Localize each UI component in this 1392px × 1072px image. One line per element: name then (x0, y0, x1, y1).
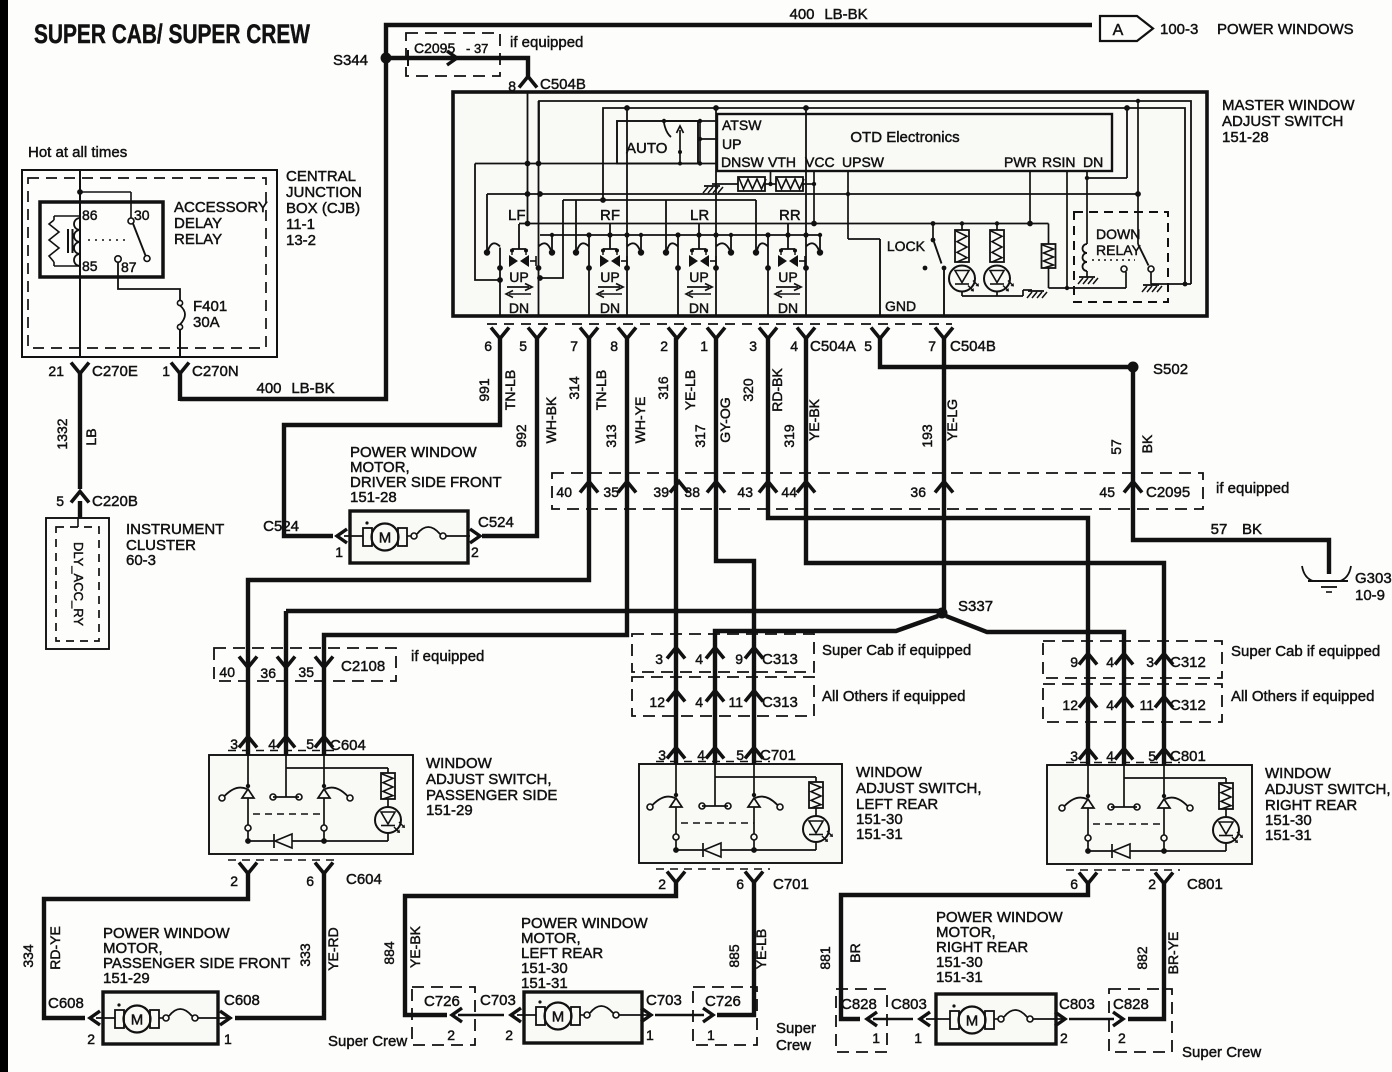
C828 left arrow (867, 1012, 877, 1026)
connector C604 top arrows (239, 737, 257, 748)
PWR pin wire to supply bus (1029, 171, 1031, 224)
C701 bottom arrows (667, 872, 685, 883)
passenger side left throw contact (219, 795, 225, 801)
svg-text:44: 44 (781, 484, 797, 500)
connector C828 left dashed box (836, 989, 887, 1052)
C801 top dashed edge (1066, 762, 1180, 764)
svg-text:5: 5 (1148, 748, 1156, 764)
RF DN return vertical (626, 108, 628, 316)
svg-text:12: 12 (649, 694, 665, 710)
svg-text:313: 313 (603, 424, 619, 448)
svg-text:RSIN: RSIN (1042, 154, 1075, 170)
left rear illumination resistor (809, 782, 823, 808)
connector C2095 dashed row (552, 473, 1203, 509)
svg-text:DN: DN (778, 300, 798, 316)
svg-text:JUNCTION: JUNCTION (286, 184, 362, 201)
svg-text:DLY_ACC_RY: DLY_ACC_RY (71, 542, 86, 626)
svg-text:11-1: 11-1 (286, 216, 315, 233)
svg-text:4: 4 (1106, 697, 1114, 713)
svg-text:3: 3 (655, 651, 663, 667)
svg-text:C270N: C270N (192, 363, 239, 380)
RR DN return vertical (805, 108, 807, 316)
svg-text:C801: C801 (1170, 748, 1206, 765)
svg-text:151-31: 151-31 (936, 969, 983, 986)
LR DN return vertical (715, 108, 717, 316)
motor M right rear (926, 1018, 950, 1020)
C604 top dashed edge (228, 750, 340, 752)
passenger side common contact bar (285, 768, 287, 797)
rail to down relay contact (1049, 287, 1127, 289)
svg-text:85: 85 (82, 258, 98, 274)
svg-text:DN: DN (689, 300, 709, 316)
accessory delay relay box (40, 202, 163, 277)
wire 317 (pin1) to C701-5 (716, 338, 754, 764)
wire 885 YE-LB to motor C703 (717, 882, 754, 1015)
svg-text:4: 4 (1106, 748, 1114, 764)
svg-text:- 37: - 37 (466, 41, 488, 56)
svg-text:1: 1 (335, 544, 343, 560)
svg-text:6: 6 (736, 876, 744, 892)
relay branch to contact 30 (77, 189, 83, 195)
svg-text:C524: C524 (263, 518, 299, 535)
left rear left throw contact (647, 804, 653, 810)
svg-text:C313: C313 (762, 651, 798, 668)
C312 row2 arrows (1079, 697, 1097, 708)
connector C312 row2 dashed box (1043, 684, 1222, 722)
svg-text:UP: UP (509, 269, 528, 285)
svg-text:2: 2 (660, 338, 668, 354)
bus B2 second inner loop (603, 108, 1185, 284)
C313 row1 arrows (667, 648, 685, 659)
svg-text:10-9: 10-9 (1355, 587, 1385, 604)
LF UP output vertical (499, 248, 501, 317)
svg-text:C504B: C504B (950, 338, 996, 355)
svg-text:RR: RR (779, 207, 801, 224)
svg-text:11: 11 (1139, 697, 1154, 713)
LF cell loop (475, 164, 500, 281)
svg-text:C726: C726 (705, 993, 741, 1010)
splice S344 (381, 53, 392, 64)
svg-text:RD-BK: RD-BK (769, 368, 785, 412)
svg-text:5: 5 (864, 338, 872, 354)
resistor R-PWR (1048, 224, 1050, 245)
left rear common contact bar (714, 777, 716, 806)
svg-text:Crew: Crew (776, 1037, 811, 1054)
master switch LR section - contacts and rocker (663, 224, 734, 316)
svg-text:C608: C608 (48, 995, 84, 1012)
left rear right pole wire (753, 764, 755, 795)
svg-text:Super: Super (776, 1020, 816, 1037)
central junction box dashed inner (28, 178, 266, 348)
right rear left pole wire (1087, 765, 1089, 796)
right rear clamp diode (1111, 844, 1113, 858)
passenger side switch body box (209, 755, 413, 854)
svg-text:43: 43 (737, 484, 753, 500)
left rear illumination LED (815, 808, 817, 816)
connector C608 pin1 arrow (220, 1011, 230, 1025)
svg-text:Super Crew: Super Crew (1182, 1044, 1261, 1061)
svg-text:35: 35 (298, 664, 314, 680)
svg-text:LR: LR (690, 207, 709, 224)
UPSW pin wire (847, 171, 849, 239)
svg-text:1: 1 (646, 1027, 654, 1043)
svg-text:5: 5 (736, 747, 744, 763)
svg-text:60-3: 60-3 (126, 552, 156, 569)
svg-text:BOX (CJB): BOX (CJB) (286, 200, 360, 217)
resistor R-DNSW (738, 177, 765, 191)
svg-text:39: 39 (653, 484, 669, 500)
master bottom connector dashed line (487, 323, 952, 325)
svg-text:C2108: C2108 (341, 658, 385, 675)
svg-text:151-29: 151-29 (426, 802, 473, 819)
feeds to throw contacts RF LR RR (575, 200, 577, 250)
passenger side illumination resistor (381, 773, 395, 799)
svg-text:if equipped: if equipped (1216, 480, 1289, 497)
connector C703 left arrow (511, 1008, 521, 1022)
svg-text:C220B: C220B (92, 493, 138, 510)
svg-text:2: 2 (87, 1031, 95, 1047)
svg-text:LOCK: LOCK (887, 238, 926, 254)
svg-text:DN: DN (600, 300, 620, 316)
svg-text:881: 881 (817, 946, 833, 970)
long wire to S337 and C604-4 (286, 609, 942, 613)
svg-text:316: 316 (655, 376, 671, 400)
wire 881 BR to motor C803 (841, 883, 1088, 1019)
passenger side left pole wire (247, 755, 249, 786)
svg-text:1: 1 (162, 363, 170, 379)
passenger side rocker link (dashed) (253, 813, 324, 815)
C726 right arrow (703, 1008, 713, 1022)
svg-text:4: 4 (697, 747, 705, 763)
svg-text:if equipped: if equipped (411, 648, 484, 665)
bus B3 DNSW bus (475, 163, 717, 165)
svg-text:DN: DN (1083, 154, 1103, 170)
svg-text:151-29: 151-29 (103, 970, 150, 987)
svg-text:M: M (552, 1009, 565, 1026)
connector C504B pin 8 arrow (519, 77, 537, 88)
svg-text:C803: C803 (891, 996, 927, 1013)
fuse F401 30A (177, 300, 182, 305)
right rear common contact bar (1123, 778, 1125, 807)
svg-text:4: 4 (695, 651, 703, 667)
svg-text:C504A: C504A (810, 338, 856, 355)
svg-text:BK: BK (1242, 521, 1262, 538)
svg-text:2: 2 (1148, 876, 1156, 892)
svg-text:AUTO: AUTO (626, 140, 667, 157)
connector C270N arrow (171, 363, 189, 374)
left rear motor box (524, 992, 642, 1043)
svg-text:WINDOW: WINDOW (856, 764, 923, 781)
wire 400 LB-BK top run (180, 25, 1092, 399)
svg-text:5: 5 (306, 736, 314, 752)
svg-text:YE-LB: YE-LB (753, 929, 769, 969)
master switch LF section - contacts and rocker (484, 224, 555, 316)
svg-text:BR-YE: BR-YE (1165, 932, 1181, 975)
AUTO switch arm (662, 119, 666, 123)
svg-text:36: 36 (910, 484, 926, 500)
LF DN return vertical (538, 101, 540, 316)
svg-text:4: 4 (268, 736, 276, 752)
svg-text:YE-BK: YE-BK (407, 925, 423, 968)
svg-text:C604: C604 (330, 737, 366, 754)
svg-text:C801: C801 (1187, 876, 1223, 893)
svg-text:38: 38 (684, 484, 700, 500)
connector C726 left dashed box (412, 987, 475, 1045)
diagram pointer A to 100-3 (1100, 16, 1153, 41)
svg-text:3: 3 (230, 736, 238, 752)
VTH-VCC resistor network ground (704, 185, 720, 187)
svg-text:151-31: 151-31 (521, 975, 568, 992)
left page edge black bar (scan artifact) (0, 0, 8, 1072)
svg-text:C608: C608 (224, 992, 260, 1009)
connector C313 row2 dashed box (632, 677, 814, 716)
connector C504A/C504B pin arrows (491, 328, 509, 339)
svg-text:BR: BR (847, 943, 863, 962)
svg-text:Super Cab if equipped: Super Cab if equipped (1231, 643, 1380, 660)
svg-text:RELAY: RELAY (1096, 242, 1142, 258)
DOWN RELAY dashed box (1074, 212, 1168, 302)
connector C220B arrow (71, 492, 89, 503)
svg-text:TN-LB: TN-LB (502, 370, 518, 410)
svg-text:2: 2 (447, 1027, 455, 1043)
svg-text:320: 320 (740, 378, 756, 402)
svg-text:ADJUST SWITCH: ADJUST SWITCH (1222, 113, 1343, 130)
svg-text:30: 30 (134, 207, 150, 223)
down relay coil ground (1086, 271, 1088, 277)
down relay switch (1136, 99, 1140, 103)
connector C608 pin2 arrow (90, 1011, 100, 1025)
instrument cluster dashed inner (56, 527, 99, 641)
svg-text:885: 885 (726, 944, 742, 968)
relay mechanical link dotted (88, 239, 126, 241)
right rear right pole wire (1163, 765, 1165, 796)
resistor R-VTH (776, 177, 803, 191)
svg-text:YE-BK: YE-BK (806, 398, 822, 441)
svg-text:ADJUST SWITCH,: ADJUST SWITCH, (856, 780, 982, 797)
svg-text:1: 1 (700, 338, 708, 354)
svg-text:YE-LG: YE-LG (944, 399, 960, 441)
svg-text:2: 2 (505, 1027, 513, 1043)
wire 333 YE-RD to motor C608 (235, 873, 324, 1018)
svg-text:319: 319 (781, 424, 797, 448)
svg-text:VTH: VTH (768, 154, 796, 170)
svg-text:6: 6 (306, 873, 314, 889)
wire 313 WH-YE (pin8) run (324, 338, 627, 755)
left rear switch body box (639, 764, 842, 863)
svg-text:2: 2 (1060, 1030, 1068, 1046)
svg-text:9: 9 (735, 651, 743, 667)
svg-text:4: 4 (1106, 654, 1114, 670)
wire from S344 to C504B pin 8 (391, 58, 528, 78)
wire 87 to fuse F401 (118, 262, 180, 301)
svg-text:C270E: C270E (92, 363, 138, 380)
connector C313 row1 dashed box (632, 634, 814, 672)
left rear output rail (676, 849, 703, 851)
svg-text:3: 3 (1146, 654, 1154, 670)
bus B1 top inner loop (539, 101, 1191, 284)
svg-text:87: 87 (121, 259, 137, 275)
connector C2095 pin 37 dashed box (406, 33, 500, 76)
svg-text:UP: UP (689, 269, 708, 285)
LED indicator 1 (949, 266, 975, 292)
svg-text:11: 11 (728, 694, 743, 710)
svg-text:C803: C803 (1059, 996, 1095, 1013)
passenger side illumination LED (387, 799, 389, 807)
passenger side lamp feed tap wire (285, 755, 287, 768)
svg-text:BK: BK (1139, 434, 1155, 453)
svg-text:333: 333 (297, 943, 313, 967)
svg-text:SUPER CAB/ SUPER CREW: SUPER CAB/ SUPER CREW (34, 19, 310, 49)
RSIN pin wire (1066, 171, 1068, 288)
svg-text:1332: 1332 (54, 418, 70, 449)
S337 branch to C312-4 (946, 616, 1124, 765)
svg-text:3: 3 (658, 747, 666, 763)
bus B4 LF feed / relay return bus (487, 193, 1138, 195)
splice S502 (1128, 362, 1139, 373)
svg-text:12: 12 (1062, 697, 1078, 713)
motor M left rear (517, 1014, 536, 1016)
C828 right arrow (1113, 1012, 1123, 1026)
svg-text:G303: G303 (1355, 570, 1392, 587)
motor M passenger front (96, 1017, 115, 1019)
svg-text:C2095: C2095 (1146, 484, 1190, 501)
svg-text:2: 2 (471, 544, 479, 560)
C801 bottom dashed edge (1066, 869, 1180, 871)
C312 row1 arrows (1079, 654, 1097, 665)
left rear clamp diode (702, 843, 704, 857)
svg-text:OTD Electronics: OTD Electronics (850, 129, 959, 146)
master switch RR section - contacts and rocker (753, 224, 823, 316)
right rear output rail (1088, 850, 1112, 852)
bus B6 rocker supply bus (519, 223, 1049, 225)
wire 991 TN-LB (pin6) to driver motor C524-1 (284, 338, 500, 536)
LR UP output vertical (677, 235, 679, 316)
right rear rocker link (dashed) (1093, 823, 1164, 825)
driver front motor box (350, 511, 468, 563)
wire 400 LB-BK from C270N down (178, 373, 182, 401)
svg-text:2: 2 (658, 876, 666, 892)
GND wire left (879, 239, 881, 316)
svg-text:WINDOW: WINDOW (1265, 765, 1332, 782)
central junction box outer (22, 170, 277, 357)
svg-text:WH-BK: WH-BK (543, 396, 559, 443)
connector C703 right arrow (641, 1008, 651, 1022)
wire 57 BK from S502 to G303 (1133, 367, 1329, 574)
wire 334 RD-YE to motor C608 (44, 873, 248, 1018)
down relay switch ground (1150, 272, 1152, 284)
C313 row2 arrows (667, 691, 685, 702)
wire 992 TN-LB (pin5) to driver motor C524-2 (482, 338, 537, 536)
connector C801 top arrows (1079, 749, 1097, 760)
svg-text:317: 317 (692, 424, 708, 448)
svg-text:882: 882 (1134, 946, 1150, 970)
bus B7 lower tie bus (540, 234, 820, 236)
svg-text:LF: LF (508, 207, 526, 224)
svg-text:CENTRAL: CENTRAL (286, 168, 356, 185)
svg-text:C604: C604 (346, 871, 382, 888)
LF DN loop to bus B5 (540, 200, 563, 278)
svg-text:PWR: PWR (1004, 154, 1037, 170)
svg-text:2: 2 (230, 873, 238, 889)
down relay coil (1083, 244, 1088, 253)
wire 193 YE-LG (pin7) to S337 (942, 338, 946, 611)
svg-text:21: 21 (48, 363, 64, 379)
connector C312 row1 dashed box (1043, 641, 1222, 678)
passenger front motor box (103, 992, 218, 1044)
svg-text:Hot at all times: Hot at all times (28, 144, 127, 161)
svg-text:UP: UP (722, 136, 741, 152)
svg-text:151-28: 151-28 (1222, 129, 1269, 146)
left rear rocker link (dashed) (681, 822, 754, 824)
connector C828 right dashed box (1109, 989, 1172, 1052)
wire 320 GY-OG (pin3) to right side (768, 338, 1088, 765)
svg-text:57: 57 (1211, 521, 1228, 538)
svg-text:1: 1 (707, 1027, 715, 1043)
ground G303 10-9 (1302, 566, 1313, 581)
LED indicator 2 (984, 266, 1010, 292)
wire 884 YE-BK to motor C703 (405, 882, 676, 1015)
svg-text:RD-YE: RD-YE (47, 926, 63, 970)
svg-text:INSTRUMENT: INSTRUMENT (126, 521, 224, 538)
C2095 arrows (580, 482, 598, 493)
svg-text:POWER WINDOWS: POWER WINDOWS (1217, 21, 1354, 38)
DN pin wire to relay coil (1086, 171, 1088, 244)
master switch RF section - contacts and rocker (573, 224, 644, 316)
svg-text:DN: DN (509, 300, 529, 316)
supply wire C504B-8 inside master (V1) (527, 92, 529, 224)
svg-text:36: 36 (260, 665, 276, 681)
C604 bottom dashed edge (228, 859, 340, 861)
svg-text:2: 2 (1118, 1030, 1126, 1046)
svg-text:C703: C703 (646, 992, 682, 1009)
wire 882 BR-YE to motor C803 (1128, 883, 1164, 1019)
svg-text:C524: C524 (478, 514, 514, 531)
svg-text:1: 1 (914, 1030, 922, 1046)
svg-text:992: 992 (513, 424, 529, 448)
passenger side clamp diode (273, 834, 275, 848)
right rear right throw contact (1162, 794, 1166, 798)
svg-text:TN-LB: TN-LB (593, 370, 609, 410)
svg-text:35: 35 (603, 484, 619, 500)
svg-text:334: 334 (20, 944, 36, 968)
svg-text:991: 991 (476, 378, 492, 402)
svg-text:45: 45 (1099, 484, 1115, 500)
right rear motor box (936, 994, 1056, 1044)
C2108 arrows (239, 657, 257, 668)
svg-text:4: 4 (695, 694, 703, 710)
wire 316 (pin2) to C701-3 (674, 338, 678, 764)
svg-text:30A: 30A (193, 314, 220, 331)
svg-text:C313: C313 (762, 694, 798, 711)
master window adjust switch outer box (453, 92, 1207, 316)
drop from B2 to DN relay feed line (1126, 108, 1128, 178)
relay contact 87 (115, 256, 121, 262)
svg-text:100-3: 100-3 (1160, 21, 1198, 38)
svg-text:GY-OG: GY-OG (717, 397, 733, 442)
AUTO detent element (679, 130, 681, 164)
svg-text:All Others if equipped: All Others if equipped (1231, 688, 1374, 705)
svg-text:YE-LB: YE-LB (682, 370, 698, 410)
C2095-37 inline arrow (447, 51, 457, 65)
right rear lamp feed tap wire (1123, 765, 1125, 778)
passenger side right pole wire (323, 755, 325, 786)
connector C803 left arrow (920, 1012, 930, 1026)
svg-text:Super Crew: Super Crew (328, 1033, 407, 1050)
LED branch 1 resistor (960, 221, 964, 225)
svg-text:884: 884 (381, 941, 397, 965)
svg-text:GND: GND (885, 298, 916, 314)
svg-text:151-28: 151-28 (350, 489, 397, 506)
